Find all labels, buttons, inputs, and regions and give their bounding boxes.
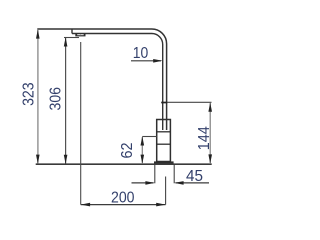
svg-text:200: 200: [111, 190, 135, 207]
dim 323 arrow top: [36, 29, 40, 38]
base flange: [154, 161, 174, 164]
dim 144 arrow top: [208, 103, 212, 112]
dim 200 left extension (from aerator): [80, 42, 82, 205]
dim 45 left extension: [154, 165, 156, 183]
dim 62 arrow top: [141, 136, 145, 145]
dim 45 left arrow: [145, 181, 154, 185]
dim 62 line: [141, 137, 143, 163]
svg-text:45: 45: [186, 168, 203, 185]
dim 62 arrow bottom: [141, 155, 145, 164]
dim 306 line: [65, 38, 67, 164]
dim 323 arrow bottom: [36, 155, 40, 164]
aerator: [75, 34, 85, 37]
dim 10 arrow: [153, 59, 162, 63]
dim 45 left tail: [132, 182, 154, 184]
svg-text:306: 306: [47, 87, 64, 111]
dim 45 right arrow: [174, 181, 183, 185]
dim 62 extension line: [142, 136, 156, 138]
dim 323 line: [37, 30, 39, 164]
dim 200 line: [81, 204, 166, 206]
svg-text:10: 10: [133, 45, 149, 62]
dim 45 right extension: [173, 165, 175, 183]
spout underside outline: [72, 34, 163, 131]
dim 306 arrow top: [64, 37, 68, 46]
svg-text:62: 62: [119, 142, 136, 158]
svg-text:323: 323: [21, 82, 38, 106]
svg-text:144: 144: [196, 126, 213, 150]
dim 144 line: [209, 103, 211, 163]
spout top outline: [37, 29, 166, 130]
dim 144 arrow bottom: [208, 154, 212, 163]
faucet body: [157, 120, 171, 162]
dim 200 right extension (body axis): [165, 177, 167, 205]
dim 200 left arrow: [81, 203, 90, 207]
dim 306 extension line: [64, 37, 79, 39]
body internal line 2: [157, 143, 171, 145]
dim 45 right tail: [176, 182, 210, 184]
deck line: [36, 163, 212, 165]
dim 144 extension line: [167, 101, 211, 103]
joint tick on pipe: [161, 102, 167, 104]
body internal line 1: [157, 131, 171, 133]
dim 200 right arrow: [156, 203, 165, 207]
dim 10 leader line: [131, 60, 161, 62]
spout tip face: [71, 29, 73, 34]
dim 306 arrow bottom: [64, 155, 68, 164]
